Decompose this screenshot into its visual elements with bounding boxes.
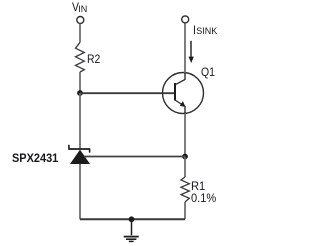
label R2 <box>87 53 100 65</box>
label Q1 <box>201 66 215 78</box>
ISINK current arrow <box>189 41 194 63</box>
transistor Q1 <box>163 73 204 114</box>
node A junction dot <box>77 90 83 96</box>
wire node A to Q1 base <box>80 92 175 94</box>
label VIN <box>72 1 79 13</box>
wire VIN to R2 <box>79 24 81 43</box>
label ISINK <box>193 24 196 36</box>
wire Q1 emitter to node B <box>184 112 186 157</box>
node B junction dot <box>182 154 188 160</box>
label SPX2431 <box>12 152 58 164</box>
wire R2 to node A <box>79 72 81 93</box>
wire SPX2431 anode to bottom rail <box>79 164 81 219</box>
SPX2431 shunt regulator <box>69 145 91 164</box>
wire R1 to bottom rail <box>184 202 186 219</box>
ground symbol <box>124 219 139 241</box>
resistor R1 <box>181 177 189 202</box>
wire node B to R1 <box>184 157 186 178</box>
label R1 and 0.1% <box>191 181 216 205</box>
terminal VIN <box>77 17 84 24</box>
wire node A to SPX2431 cathode <box>79 93 81 149</box>
resistor R2 <box>76 42 85 72</box>
ground node junction dot <box>129 216 135 222</box>
terminal ISINK <box>182 16 189 23</box>
wire SPX2431 ref to node B <box>84 156 185 158</box>
bottom rail wire <box>80 218 185 220</box>
wire Q1 collector to ISINK terminal <box>184 23 186 74</box>
